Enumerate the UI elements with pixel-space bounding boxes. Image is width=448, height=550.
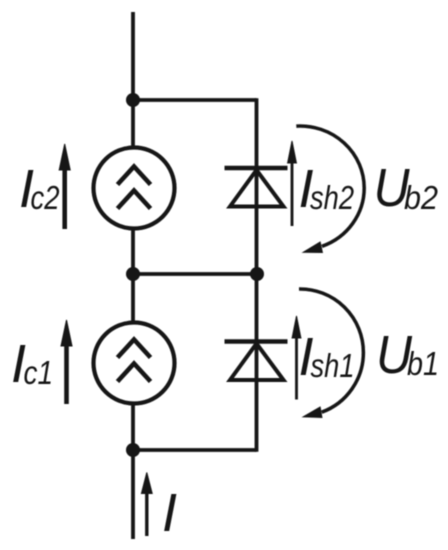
- svg-text:c1: c1: [24, 354, 54, 391]
- svg-text:c2: c2: [31, 179, 60, 216]
- svg-text:sh2: sh2: [310, 179, 354, 216]
- svg-text:I: I: [162, 483, 177, 543]
- svg-text:b1: b1: [407, 345, 439, 382]
- svg-text:sh1: sh1: [311, 347, 355, 384]
- svg-text:b2: b2: [404, 179, 438, 216]
